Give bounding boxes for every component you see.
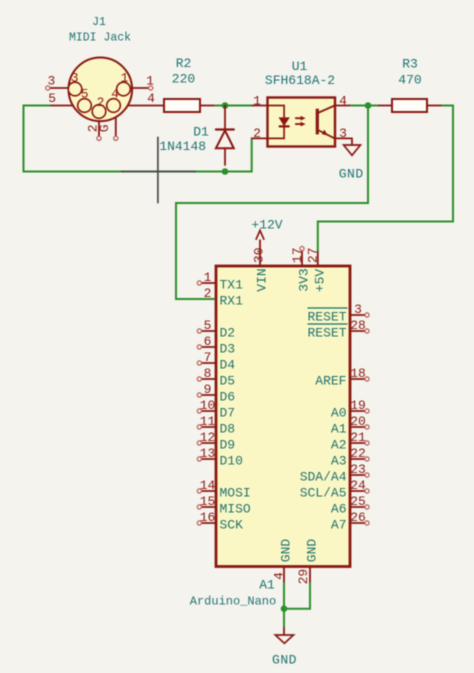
A1 pin 12 D9 bbox=[197, 430, 235, 453]
svg-text:25: 25 bbox=[350, 494, 366, 509]
svg-text:SFH618A-2: SFH618A-2 bbox=[265, 73, 335, 88]
A1 pin 17 3V3 bbox=[290, 247, 312, 292]
wire segment left vertical loop bbox=[24, 106, 226, 172]
U1 pin 2 stub bbox=[253, 137, 268, 139]
U1 light arrow upper bbox=[296, 116, 306, 121]
A1 pin 16 SCK bbox=[197, 510, 243, 533]
power symbol +12V bbox=[251, 218, 282, 251]
U1 internal LED cathode bar bbox=[280, 125, 289, 127]
junction at U1 pin4 / R3 node bbox=[365, 102, 372, 109]
R2 right pin bbox=[200, 105, 215, 107]
svg-text:5: 5 bbox=[48, 91, 56, 106]
A1 pin 18 AREF bbox=[315, 366, 369, 389]
svg-text:D9: D9 bbox=[220, 438, 236, 453]
svg-text:AREF: AREF bbox=[315, 374, 346, 389]
svg-text:17: 17 bbox=[290, 247, 305, 263]
svg-text:+12V: +12V bbox=[251, 218, 282, 233]
svg-text:10: 10 bbox=[200, 398, 216, 413]
graphic line horizontal (black) bbox=[121, 171, 196, 173]
U1 pin 4 stub bbox=[335, 105, 351, 107]
wire R3 to +5V pin 27 bbox=[318, 106, 453, 253]
svg-text:24: 24 bbox=[350, 478, 366, 493]
R3 right pin bbox=[427, 105, 442, 107]
svg-text:1: 1 bbox=[146, 74, 154, 89]
ground symbol bottom bbox=[272, 627, 297, 668]
svg-text:15: 15 bbox=[200, 494, 216, 509]
svg-text:A1: A1 bbox=[259, 578, 275, 593]
svg-text:U1: U1 bbox=[292, 59, 308, 74]
A1 pin 11 D8 bbox=[197, 414, 235, 437]
microcontroller A1 Arduino_Nano bbox=[190, 247, 369, 609]
J1 pin 1 stub bbox=[132, 87, 148, 89]
svg-text:12: 12 bbox=[200, 430, 216, 445]
svg-text:14: 14 bbox=[200, 478, 216, 493]
svg-text:R3: R3 bbox=[402, 56, 418, 71]
A1 pin 9 D6 bbox=[197, 382, 235, 405]
U1 collector line bbox=[319, 106, 335, 113]
A1 pin 22 A3 bbox=[331, 446, 369, 469]
svg-text:D2: D2 bbox=[220, 326, 236, 341]
svg-text:6: 6 bbox=[204, 334, 212, 349]
svg-text:470: 470 bbox=[398, 72, 421, 87]
A1 pin 30 VIN bbox=[252, 247, 270, 291]
ground symbol at U1 pin 3 bbox=[339, 138, 364, 181]
svg-text:23: 23 bbox=[350, 462, 366, 477]
U1 body bbox=[268, 98, 336, 147]
svg-text:D10: D10 bbox=[220, 454, 243, 469]
svg-text:MOSI: MOSI bbox=[220, 486, 251, 501]
svg-text:26: 26 bbox=[350, 510, 366, 525]
svg-text:3: 3 bbox=[354, 302, 362, 317]
svg-text:D7: D7 bbox=[220, 406, 236, 421]
A1 pin 13 D10 bbox=[197, 446, 243, 469]
svg-text:5: 5 bbox=[81, 87, 89, 102]
A1 pin 28 RESET bbox=[307, 318, 369, 341]
U1 internal LED loop bbox=[268, 106, 285, 139]
svg-text:1N4148: 1N4148 bbox=[159, 139, 206, 154]
J1 pin G stub bbox=[115, 117, 117, 136]
svg-text:13: 13 bbox=[200, 446, 216, 461]
A1 pin 15 MISO bbox=[197, 494, 251, 517]
svg-text:GND: GND bbox=[305, 539, 320, 563]
A1 pin 5 D2 bbox=[197, 318, 235, 341]
A1 pin 19 A0 bbox=[331, 398, 369, 421]
svg-text:D8: D8 bbox=[220, 422, 236, 437]
svg-text:19: 19 bbox=[350, 398, 366, 413]
junction at R2/D1/U1 node bbox=[222, 102, 229, 109]
svg-text:4: 4 bbox=[147, 91, 155, 106]
svg-text:4: 4 bbox=[339, 93, 347, 108]
D1 triangle bbox=[216, 131, 234, 149]
svg-text:A7: A7 bbox=[331, 518, 347, 533]
svg-text:G: G bbox=[97, 124, 112, 132]
wire net from J1 pin5 loop to D1 anode bbox=[24, 106, 254, 172]
svg-text:VIN: VIN bbox=[255, 268, 270, 291]
A1 pin 29 GND bbox=[296, 539, 319, 585]
svg-text:22: 22 bbox=[350, 446, 366, 461]
svg-text:A1: A1 bbox=[331, 422, 347, 437]
svg-text:5: 5 bbox=[204, 318, 212, 333]
svg-text:RESET: RESET bbox=[307, 310, 346, 325]
graphic line vertical (black) bbox=[157, 137, 159, 204]
svg-text:J1: J1 bbox=[92, 16, 106, 29]
svg-text:9: 9 bbox=[204, 382, 212, 397]
U1 pin 3 stub bbox=[335, 137, 352, 139]
J1 pin 4 stub bbox=[128, 105, 164, 107]
wire R2 to U1 pin1 bbox=[215, 105, 253, 107]
resistor R3 bbox=[378, 56, 442, 112]
svg-text:A3: A3 bbox=[331, 454, 347, 469]
A1 pin 20 A1 bbox=[331, 414, 369, 437]
svg-text:+5V: +5V bbox=[312, 269, 327, 293]
connector J1 MIDI Jack bbox=[46, 16, 164, 140]
svg-text:D3: D3 bbox=[220, 342, 236, 357]
wire opto output node down and to RX1 bbox=[176, 106, 368, 300]
resistor R2 bbox=[164, 56, 215, 112]
svg-text:R2: R2 bbox=[176, 56, 192, 71]
A1 pin 1 TX1 bbox=[197, 270, 243, 293]
wire junction to ground symbol bbox=[283, 609, 285, 627]
R2 body bbox=[164, 99, 200, 112]
svg-text:2: 2 bbox=[97, 95, 105, 110]
svg-text:28: 28 bbox=[350, 318, 366, 333]
junction at D1 anode node bbox=[222, 168, 229, 175]
svg-text:3: 3 bbox=[339, 126, 347, 141]
svg-text:220: 220 bbox=[172, 72, 195, 87]
svg-text:Arduino_Nano: Arduino_Nano bbox=[190, 595, 276, 609]
J1 pin 3 stub bbox=[50, 87, 68, 89]
J1 body circle bbox=[69, 58, 133, 122]
A1 pin 23 SDA/A4 bbox=[300, 462, 369, 485]
svg-text:7: 7 bbox=[204, 350, 212, 365]
svg-text:D5: D5 bbox=[220, 374, 236, 389]
svg-text:11: 11 bbox=[200, 414, 216, 429]
A1 pin 27 +5V bbox=[306, 247, 328, 292]
svg-text:A2: A2 bbox=[331, 438, 347, 453]
A1 pin 3 RESET bbox=[307, 302, 369, 325]
svg-text:2: 2 bbox=[253, 126, 261, 141]
wire segment D1 anode to U1 pin2 bbox=[225, 138, 253, 171]
optocoupler U1 SFH618A-2 bbox=[253, 59, 353, 147]
U1 phototransistor base bar bbox=[316, 109, 319, 135]
svg-text:4: 4 bbox=[111, 87, 119, 102]
A1 pin 21 A2 bbox=[331, 430, 369, 453]
A1 pin 24 SCL/A5 bbox=[300, 478, 369, 501]
R3 body bbox=[392, 99, 427, 112]
A1 pin 6 D3 bbox=[197, 334, 235, 357]
A1 pin 10 D7 bbox=[197, 398, 235, 421]
svg-text:SCL/A5: SCL/A5 bbox=[300, 486, 347, 501]
U1 emitter line with arrow bbox=[319, 131, 335, 139]
A1 pin 25 A6 bbox=[331, 494, 369, 517]
svg-text:RX1: RX1 bbox=[220, 294, 244, 309]
svg-text:MIDI Jack: MIDI Jack bbox=[69, 32, 131, 45]
junction at GND node bbox=[281, 605, 288, 612]
svg-text:GND: GND bbox=[272, 653, 297, 668]
wire RX1 overlay bbox=[176, 298, 215, 300]
svg-text:1: 1 bbox=[121, 70, 129, 85]
D1 cathode lead bbox=[224, 106, 226, 130]
J1 pin 5 stub bbox=[50, 105, 73, 107]
svg-text:27: 27 bbox=[306, 247, 321, 263]
wire U1 pin4 to R3 bbox=[350, 105, 378, 107]
R3 left pin bbox=[378, 105, 392, 107]
A1 body bbox=[216, 266, 350, 567]
svg-text:A6: A6 bbox=[331, 502, 347, 517]
diode D1 1N4148 bbox=[159, 106, 234, 166]
svg-text:SDA/A4: SDA/A4 bbox=[300, 470, 347, 485]
svg-text:21: 21 bbox=[350, 430, 366, 445]
D1 cathode bar bbox=[216, 128, 234, 130]
svg-text:GND: GND bbox=[279, 539, 294, 563]
A1 pin 26 A7 bbox=[331, 510, 369, 533]
svg-text:TX1: TX1 bbox=[220, 278, 244, 293]
D1 anode lead bbox=[224, 148, 226, 165]
U1 internal LED triangle bbox=[280, 118, 289, 125]
svg-text:D4: D4 bbox=[220, 358, 236, 373]
svg-text:29: 29 bbox=[296, 569, 311, 585]
J1 pin 2 stub bbox=[98, 121, 100, 136]
A1 pin 8 D5 bbox=[197, 366, 235, 389]
svg-text:A0: A0 bbox=[331, 406, 347, 421]
svg-text:MISO: MISO bbox=[220, 502, 251, 517]
svg-text:20: 20 bbox=[350, 414, 366, 429]
U1 light arrow lower bbox=[296, 122, 306, 127]
svg-text:D6: D6 bbox=[220, 390, 236, 405]
svg-text:D1: D1 bbox=[193, 125, 209, 140]
svg-text:3V3: 3V3 bbox=[297, 268, 312, 291]
J1 pin contact circles bbox=[68, 82, 130, 118]
svg-text:RESET: RESET bbox=[307, 326, 346, 341]
svg-text:1: 1 bbox=[253, 93, 261, 108]
A1 pin 2 RX1 bbox=[202, 286, 243, 309]
svg-text:SCK: SCK bbox=[220, 518, 244, 533]
A1 pin 7 D4 bbox=[197, 350, 235, 373]
U1 pin 1 stub bbox=[253, 105, 268, 107]
wire GND pins to junction bbox=[283, 583, 285, 609]
svg-text:3: 3 bbox=[71, 70, 79, 85]
svg-text:16: 16 bbox=[200, 510, 216, 525]
A1 pin 4 GND bbox=[271, 539, 293, 583]
svg-text:3: 3 bbox=[47, 74, 55, 89]
svg-text:1: 1 bbox=[204, 270, 212, 285]
svg-text:8: 8 bbox=[204, 366, 212, 381]
svg-text:GND: GND bbox=[339, 167, 364, 182]
A1 pin 14 MOSI bbox=[197, 478, 250, 501]
svg-text:18: 18 bbox=[350, 366, 366, 381]
